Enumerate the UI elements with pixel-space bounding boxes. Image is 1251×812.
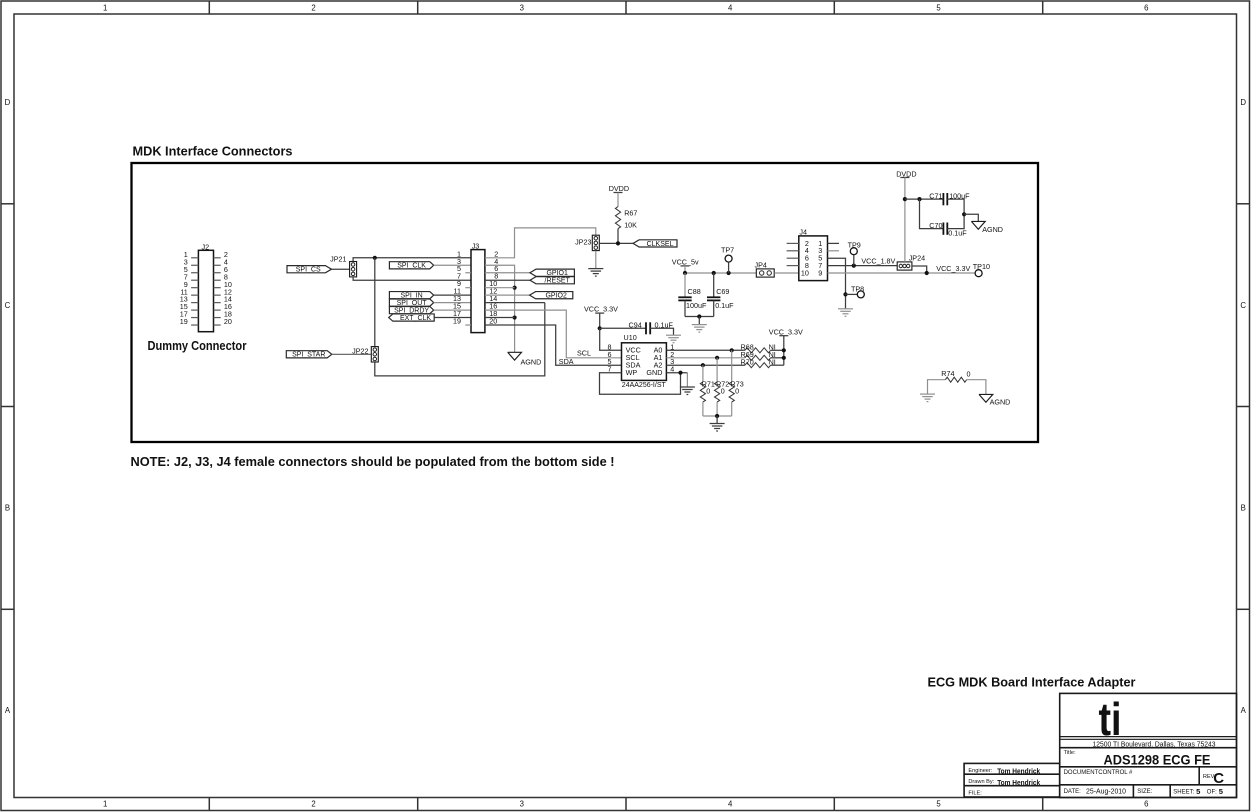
svg-text:DOCUMENTCONTROL #: DOCUMENTCONTROL # [1064,770,1133,776]
wire J3 pin4 AGND net [485,265,515,352]
left margin tick 1 [1,203,14,205]
wire R67 to CLKSEL node [617,229,619,244]
connector J3 [453,242,498,333]
wire U10 A0 [666,349,745,351]
svg-text:J2: J2 [202,242,210,251]
svg-text:B: B [5,504,10,513]
sheet number 5 [1196,787,1201,796]
svg-text:0: 0 [706,387,710,396]
svg-text:C94: C94 [629,320,642,329]
row label C right [1240,301,1246,310]
svg-text:100uF: 100uF [686,301,707,310]
svg-text:10: 10 [801,268,809,277]
eeprom U10 [608,333,675,389]
svg-text:EXT_CLK: EXT_CLK [400,315,431,322]
of number 5 [1219,787,1224,796]
wire U10 A2 [666,364,745,366]
wire R72 bottom [716,402,718,416]
title block ti section line [1060,737,1237,740]
svg-text:R67: R67 [624,208,637,217]
svg-text:TP7: TP7 [721,245,734,254]
svg-text:D: D [1240,98,1246,107]
wire VCC to C94 [600,327,646,329]
jumper JP22 [352,346,378,362]
wire U10 A1 [666,357,745,359]
flag SPI_CS [287,266,332,274]
note text [131,454,615,469]
svg-text:6: 6 [1144,800,1148,809]
svg-text:Tom Hendrick: Tom Hendrick [997,778,1040,787]
wire SPI_STAR to JP22 [332,353,371,355]
wire A2 down to R71 [702,365,704,382]
junction dot R69 VCC [782,356,786,360]
engineer block lines [964,774,1060,786]
svg-text:OF:: OF: [1207,789,1217,795]
junction dot A1 [715,356,719,360]
bottom margin tick 2 [417,798,419,811]
junction dot JP21 node [373,256,377,260]
wire R73 bottom [731,402,733,416]
svg-text:C: C [1240,301,1246,310]
ground at C88 C69 [692,325,707,333]
wire J4 pin5 down to ground [828,258,846,309]
label OF [1207,789,1217,795]
J4 pin3 stub [828,250,840,252]
junction dot C70 C71 [962,212,966,216]
wire R71-73 common [703,415,732,417]
svg-text:Engineer:: Engineer: [968,768,992,774]
wire C70 branch [920,199,944,229]
testpoint TP7 [721,245,734,273]
left margin tick 2 [1,406,14,408]
connector J2 [180,242,232,331]
svg-text:DVDD: DVDD [609,184,629,193]
svg-text:C71: C71 [929,191,942,200]
svg-text:9: 9 [818,268,822,277]
jumper JP23 [575,235,599,250]
svg-text:JP24: JP24 [909,253,925,262]
wire SPI_DRDY to J3 [434,309,471,311]
row label C left [5,301,11,310]
date size divider [1133,785,1170,798]
flag SPI_IN [389,292,433,300]
bottom margin tick 5 [1042,798,1044,811]
svg-text:D: D [5,98,11,107]
column label 1 top [103,3,107,12]
junction dot R68 VCC [782,348,786,352]
wire JP23 to ground [595,251,597,269]
resistor R72 [715,380,730,402]
svg-text:19: 19 [453,317,461,326]
svg-text:A: A [1241,706,1247,715]
wire DVDD to C71 [905,198,944,200]
ground at R71-73 [710,424,725,432]
svg-text:Title:: Title: [1064,750,1076,756]
ground AGND at C70 C71 [971,221,1003,234]
svg-text:Drawn By:: Drawn By: [968,779,994,785]
capacitor C88 [678,273,707,317]
svg-text:12500 TI Boulevard. Dallas, T: 12500 TI Boulevard. Dallas, Texas 75243 [1093,742,1216,749]
engineer block outline [964,763,1060,797]
ground AGND at J3 [508,352,542,366]
label VCC_3.3V rail [936,264,970,273]
row label D right [1240,98,1246,107]
top margin tick 5 [1042,1,1044,14]
resistor R68 [741,343,776,353]
top margin tick 4 [833,1,835,14]
label Engineer [968,768,992,774]
flag EXT_CLK [389,314,435,322]
drawn by name [997,778,1040,787]
wire R71 bottom [702,402,704,416]
svg-text:5: 5 [936,3,941,12]
column label 5 bottom [936,800,941,809]
title ADS1298 ECG FE [1104,753,1211,768]
svg-text:B: B [1241,504,1246,513]
flag SPI_STAR [286,351,332,359]
wire R69 to VCC [771,357,784,359]
jumper JP21 [330,255,356,277]
jumper JP4 [755,260,775,277]
ground at C94 [666,335,681,343]
svg-text:ADS1298 ECG FE: ADS1298 ECG FE [1104,753,1211,768]
wire J3 pin18 to AGND net [485,317,515,319]
label Title [1064,750,1076,756]
column label 1 bottom [103,800,107,809]
ground at J4 [838,309,853,317]
svg-text:2: 2 [311,800,315,809]
svg-text:3: 3 [520,800,524,809]
wire C88 C69 common [685,316,714,318]
junction dot WP GND [678,371,682,375]
wire J3 pin16 SCL [485,310,622,358]
svg-text:1: 1 [103,800,107,809]
flag GPIO1 [530,269,574,277]
svg-text:C69: C69 [716,287,729,296]
wire to AGND C70C71 [964,214,978,221]
column label 3 top [520,3,524,12]
svg-text:10K: 10K [624,220,637,229]
label SCL [577,349,591,358]
wire R68 to VCC [771,349,784,351]
svg-text:25-Aug-2010: 25-Aug-2010 [1086,787,1126,796]
wire JP21 pin3 to J3 pin7 [353,277,471,280]
svg-text:0: 0 [967,369,971,378]
ground at JP23 [588,269,603,277]
svg-text:WP: WP [626,368,638,377]
capacitor C69 [707,273,734,317]
column label 6 top [1144,3,1148,12]
top margin tick 2 [417,1,419,14]
svg-text:R74: R74 [941,369,954,378]
resistor R73 [729,380,744,402]
wire VCC to U10 pin8 [600,328,622,350]
left margin tick 3 [1,608,14,610]
svg-text:JP4: JP4 [755,260,767,269]
resistor R69 [741,350,776,360]
power DVDD at R67 [609,184,629,206]
wire R70 to VCC [771,364,784,366]
jumper JP24 [897,253,925,270]
row label B right [1241,504,1246,513]
junction dot JP24 rail [925,271,929,275]
label SDA [559,357,574,366]
flag SPI_CLK [389,262,433,270]
wire J3 pin12 to GPIO2 [485,294,530,296]
svg-text:VCC_5v: VCC_5v [672,257,699,266]
wire VCC_3.3V rail [828,272,976,274]
junction dot A2 [701,363,705,367]
junction dot A0 [730,348,734,352]
testpoint TP8 [846,284,865,298]
wire VCC_1.8V rail [828,265,898,267]
wire SPI_CS to JP21 [332,268,350,270]
column label 4 bottom [728,800,733,809]
svg-text:JP22: JP22 [352,346,368,355]
wire VCC_5v rail [685,272,756,274]
wire SPI_OUT to J3 [434,302,471,304]
row label D left [5,98,11,107]
svg-text:/RESET: /RESET [545,278,571,285]
wire JP24 to rail [912,266,927,273]
junction dot C88 C69 gnd [697,314,701,318]
ground AGND at R74 [979,394,1010,406]
wire J3 pin10 to AGND net [485,287,515,289]
resistor R67 [615,207,637,230]
svg-text:C70: C70 [929,221,942,230]
rev C [1213,770,1224,787]
title row line [1060,766,1237,768]
power VCC_5v [672,257,699,273]
J3 pin5 stub [465,272,471,274]
wire A1 down to R72 [716,358,718,382]
date text [1086,787,1126,796]
svg-text:SPI_STAR: SPI_STAR [292,352,325,359]
junction dot pin18 AGND [513,315,517,319]
svg-text:J4: J4 [799,228,807,237]
svg-text:0: 0 [735,387,739,396]
capacitor C70 [929,221,967,238]
junction dot C94 [598,326,602,330]
svg-text:SCL: SCL [577,349,591,358]
document control text [1064,770,1133,776]
address text [1093,742,1216,749]
wire JP4 to J4 pin10 [774,272,799,274]
wire J3 pin2 to JP23 [485,228,596,258]
row label A left [5,706,11,715]
junction dot TP7 [727,271,731,275]
J3 pin9 stub [465,287,471,289]
wire SPI_IN to J3 [434,294,471,296]
doc row line [1060,784,1237,786]
junction dot DVDD 1 [903,197,907,201]
junction dot CLKSEL node [616,241,620,245]
svg-text:6: 6 [1144,3,1148,12]
testpoint TP9 [848,241,861,266]
label FILE [968,791,982,797]
svg-text:GPIO2: GPIO2 [545,293,567,300]
label SHEET [1173,789,1194,795]
svg-text:TP10: TP10 [973,262,990,271]
svg-text:SPI_CLK: SPI_CLK [397,263,426,270]
label VCC_1.8V [861,257,895,266]
capacitor C71 [929,191,970,205]
wire C70 right [947,214,964,228]
svg-text:VCC_1.8V: VCC_1.8V [861,257,895,266]
svg-text:AGND: AGND [982,225,1003,234]
flag SPI_OUT [389,299,433,307]
wire J3 pin20 SDA [485,325,622,365]
svg-text:1: 1 [103,3,107,12]
svg-text:20: 20 [224,317,232,326]
svg-text:DATE:: DATE: [1064,789,1082,795]
bottom margin tick 4 [833,798,835,811]
wire to ground R71-73 [716,416,718,424]
svg-text:5: 5 [936,800,941,809]
flag /RESET [530,277,574,285]
svg-text:A: A [5,706,11,715]
row label A right [1241,706,1247,715]
junction dot DVDD 2 [917,197,921,201]
power VCC_3.3V at U10 [584,304,618,328]
wire JP23 to CLKSEL [599,242,633,244]
wire U10 gnd down [686,373,688,387]
svg-text:19: 19 [180,317,188,326]
svg-text:AGND: AGND [990,398,1011,407]
testpoint TP10 [973,262,990,277]
wire J3 pin8 to RESET [485,279,530,281]
svg-text:ECG MDK Board Interface Adapte: ECG MDK Board Interface Adapter [928,675,1136,690]
svg-text:AGND: AGND [521,358,542,367]
connector J4 [787,228,828,281]
svg-text:4: 4 [728,800,733,809]
ti logo [1099,693,1122,745]
wire U10 WP loop to GND [600,373,681,395]
svg-text:J3: J3 [472,242,480,251]
svg-text:0.1uF: 0.1uF [948,229,967,238]
column label 6 bottom [1144,800,1148,809]
svg-text:FILE:: FILE: [968,791,982,797]
svg-text:NOTE: J2, J3, J4 female connec: NOTE: J2, J3, J4 female connectors shoul… [131,454,615,469]
power VCC_3.3V at R68 [769,328,803,366]
wire C94 to ground [650,328,673,335]
wire J3 pin6 to GPIO1 [485,272,530,274]
svg-text:SPI_CS: SPI_CS [296,267,321,274]
ground at R74 [920,394,935,402]
schematic boundary box [132,163,1039,442]
column label 5 top [936,3,941,12]
wire R74 right [967,380,986,395]
junction dot C69 [712,271,716,275]
ground at U10 [680,387,695,395]
svg-text:R70: R70 [741,357,754,366]
svg-text:0.1uF: 0.1uF [715,301,734,310]
engineer name [997,767,1040,776]
flag GPIO2 [530,292,573,300]
column label 4 top [728,3,733,12]
label REV [1203,774,1216,780]
resistor R74 [941,369,970,382]
right margin tick 1 [1237,203,1251,205]
right margin tick 3 [1237,608,1251,610]
address line [1060,747,1237,749]
svg-text:CLKSEL: CLKSEL [647,241,674,248]
wire A0 down to R73 [731,350,733,382]
column label 2 bottom [311,800,315,809]
svg-text:SHEET:: SHEET: [1173,789,1194,795]
svg-text:U10: U10 [624,333,637,342]
svg-text:JP21: JP21 [330,255,346,264]
wire R74 left [928,380,946,394]
svg-text:SDA: SDA [559,357,574,366]
column label 2 top [311,3,315,12]
wire U10 pin4 GND [666,372,687,374]
svg-text:0: 0 [721,387,725,396]
junction dot TP9 [852,264,856,268]
svg-text:C88: C88 [688,287,701,296]
label Dummy Connector [148,338,247,353]
svg-text:ti: ti [1099,693,1122,745]
svg-text:24AA256-I/ST: 24AA256-I/ST [622,382,667,389]
svg-text:JP23: JP23 [575,238,591,247]
svg-text:MDK Interface Connectors: MDK Interface Connectors [133,143,293,158]
wire EXT_CLK to J3 [434,317,471,319]
label SIZE [1137,789,1152,795]
rev box line [1198,767,1200,785]
right margin tick 2 [1237,406,1251,408]
title ECG MDK Board Interface Adapter [928,675,1136,690]
label DATE [1064,789,1082,795]
top margin tick 3 [625,1,627,14]
junction dot R71-73 gnd [715,414,719,418]
wire JP21 junction down to JP22 [374,258,376,346]
J4 pin1 stub [828,242,840,244]
svg-text:Dummy Connector: Dummy Connector [148,338,247,353]
title MDK Interface Connectors [133,143,293,158]
svg-text:SIZE:: SIZE: [1137,789,1152,795]
resistor R70 [741,357,776,367]
svg-text:2: 2 [311,3,315,12]
junction dot pin10 AGND [513,286,517,290]
svg-text:C: C [5,301,11,310]
J3 pin19 stub [465,324,471,326]
wire SPI_CLK to J3 [434,264,471,266]
junction dot TP8 [843,292,847,296]
top margin tick 1 [208,1,210,14]
svg-text:Tom Hendrick: Tom Hendrick [997,767,1040,776]
svg-text:4: 4 [728,3,733,12]
capacitor C94 [629,320,674,334]
wire C71 right [947,199,964,214]
label Drawn By [968,779,994,785]
wire J3 pin14 right [485,302,545,304]
wire JP22 pin3 loop to J3 pin14 [375,303,545,376]
bottom margin tick 1 [208,798,210,811]
resistor R71 [700,380,715,402]
column label 3 bottom [520,800,524,809]
flag CLKSEL [633,240,677,248]
row label B left [5,504,10,513]
wire to ground C88C69 [698,317,700,325]
junction dot C88 [683,271,687,275]
svg-text:GND: GND [646,368,662,377]
wire JP21 pin1 up [353,258,471,262]
flag SPI_DRDY [389,306,433,314]
title block outline [1060,693,1237,797]
bottom margin tick 3 [625,798,627,811]
svg-text:VCC_3.3V: VCC_3.3V [936,264,970,273]
power DVDD at C71 [896,169,916,262]
